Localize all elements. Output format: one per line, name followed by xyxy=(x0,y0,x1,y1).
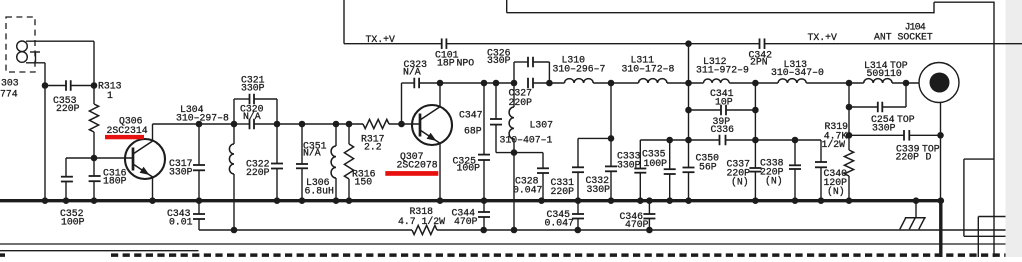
node C326/C327 right xyxy=(546,80,553,87)
annotation red underline 2SC2314 xyxy=(105,135,144,139)
node L304 bottom on lower rail xyxy=(231,227,238,234)
wire L304 top stub xyxy=(233,124,235,144)
node L307 top xyxy=(511,80,518,87)
svg-text:N/A: N/A xyxy=(403,67,421,78)
wire C331 top branch xyxy=(578,137,611,139)
annotation red underline 2SC2078 xyxy=(385,171,438,176)
svg-text:2.2: 2.2 xyxy=(364,142,382,153)
wire top border vertical into TX.+V rail xyxy=(343,0,345,44)
node L304 top xyxy=(231,121,238,128)
node Q307 base / C323 branch xyxy=(398,121,405,128)
wire C346 to lower rail xyxy=(648,219,650,231)
wire C320 right xyxy=(254,123,277,125)
svg-text:(N): (N) xyxy=(765,176,783,187)
wire L313 to antenna node xyxy=(806,82,863,84)
wire C352 to ground bus xyxy=(65,182,67,201)
wire lower rail left xyxy=(199,229,412,231)
wire C316 stub xyxy=(93,158,95,176)
svg-text:100P: 100P xyxy=(457,163,481,174)
svg-text:2PN: 2PN xyxy=(750,56,768,67)
wire C333 to bus xyxy=(639,173,641,201)
wire TX.+V rail left segment xyxy=(344,43,442,45)
node bus corner xyxy=(938,197,945,204)
wire right corner y216 xyxy=(978,216,1005,218)
inductor L312 xyxy=(704,79,730,83)
wire Q306 collector up xyxy=(152,124,154,141)
resistor R316 xyxy=(344,144,353,179)
wire C353 left xyxy=(45,85,66,87)
node C347 top xyxy=(493,80,500,87)
wire C326 branch verticals xyxy=(513,62,515,83)
svg-text:310–296–7: 310–296–7 xyxy=(553,63,606,74)
node C339 to antenna drop xyxy=(937,132,944,139)
wire C325 stub xyxy=(483,83,485,155)
node C338 top xyxy=(792,137,799,144)
node R313 bottom / base wire xyxy=(91,155,98,162)
inductor L304 xyxy=(229,144,234,174)
capacitor C342 xyxy=(759,38,761,49)
wire C254 branch right xyxy=(882,106,906,108)
svg-text:TOP: TOP xyxy=(897,114,915,125)
bus junction dots xyxy=(42,197,49,204)
wire x755 vertical xyxy=(754,83,756,168)
svg-text:TX.+V: TX.+V xyxy=(366,34,396,45)
wire C328 branch xyxy=(514,152,543,154)
svg-text:(N): (N) xyxy=(731,177,749,188)
svg-text:D: D xyxy=(926,151,932,162)
svg-text:220P: 220P xyxy=(896,151,920,162)
svg-text:303: 303 xyxy=(1,78,19,89)
wire C322 stub xyxy=(276,124,278,164)
wire main to C351 xyxy=(277,123,363,125)
svg-text:470P: 470P xyxy=(625,219,649,230)
wire L306 to bus xyxy=(335,178,337,201)
svg-text:10P: 10P xyxy=(715,96,733,107)
wire Q306 collector to L304 node xyxy=(153,123,235,125)
wire C339 branch right xyxy=(909,134,940,136)
wire rail tap vertical x688 xyxy=(688,44,690,168)
capacitor C347 xyxy=(490,118,502,120)
svg-text:C336: C336 xyxy=(711,124,735,135)
wire C321 branch right vertical xyxy=(276,99,278,124)
border line y250 xyxy=(0,250,199,252)
svg-text:(N): (N) xyxy=(827,186,845,197)
node L307 bottom xyxy=(511,149,518,156)
wire C338 to bus xyxy=(794,169,796,201)
node C335 top xyxy=(666,137,673,144)
node L312/L313 junction xyxy=(752,80,759,87)
ground bus corner vertical xyxy=(939,199,942,257)
capacitor C332 xyxy=(605,165,617,167)
wire L314 to socket xyxy=(892,82,919,84)
svg-text:100P: 100P xyxy=(61,217,85,228)
resistor R319 xyxy=(844,150,853,176)
node C332/C331 junction xyxy=(608,135,615,142)
node L307 on lower rail xyxy=(511,227,518,234)
capacitor C322 xyxy=(271,163,283,165)
transistor Q307 xyxy=(412,105,452,145)
wire roof step vertical xyxy=(933,2,935,13)
wire C254 branch left xyxy=(849,106,878,108)
wire L304 bottom crossing bus xyxy=(233,174,235,230)
node C325 top xyxy=(481,80,488,87)
wire 140-branch from C333 xyxy=(640,139,719,141)
wire L310 to L311 xyxy=(593,82,638,84)
svg-text:TX.+V: TX.+V xyxy=(808,32,838,43)
wire C323 branch vertical xyxy=(401,83,403,124)
svg-text:1: 1 xyxy=(107,90,113,101)
ground symbol xyxy=(915,201,917,218)
wire C325 to bus xyxy=(483,160,485,201)
node C351 top xyxy=(299,121,306,128)
wire C333 vertical xyxy=(639,140,641,169)
capacitor C336 xyxy=(719,135,721,146)
svg-text:0.047: 0.047 xyxy=(513,184,543,195)
wire R316 stub xyxy=(348,124,350,144)
capacitor C346 xyxy=(643,213,655,215)
node R316 top xyxy=(346,121,353,128)
wire C328 to bus xyxy=(542,173,544,201)
transistor Q306 xyxy=(125,139,165,179)
wire C332 to bus xyxy=(610,171,612,200)
node L303 bottom / C353 left xyxy=(42,82,49,89)
wire C323 left stub xyxy=(402,82,415,84)
wire C320 left xyxy=(234,123,250,125)
wire L307 bottom xyxy=(513,139,515,153)
svg-text:774: 774 xyxy=(0,89,18,100)
wire C350 to bus xyxy=(688,172,690,201)
wire C323 right to collector node xyxy=(419,82,514,84)
svg-text:N/A: N/A xyxy=(243,111,261,122)
capacitor C323 xyxy=(413,78,415,89)
wire right step y236 xyxy=(964,235,1006,237)
inductor L311 xyxy=(639,79,668,83)
svg-text:310–347–0: 310–347–0 xyxy=(771,67,824,78)
svg-text:330P: 330P xyxy=(487,55,511,66)
svg-text:150: 150 xyxy=(355,177,373,188)
node L314 right xyxy=(903,80,910,87)
wire 110-branch left xyxy=(689,109,722,111)
wire coil bottom down xyxy=(26,62,45,64)
svg-text:4.7 1/2W: 4.7 1/2W xyxy=(398,216,445,227)
node C322 top xyxy=(274,121,281,128)
svg-text:311–972–9: 311–972–9 xyxy=(696,65,749,76)
connector J104 outer xyxy=(919,63,959,103)
wire C343 stub xyxy=(198,201,200,214)
svg-text:220P: 220P xyxy=(509,97,533,108)
wire C326 branch top left xyxy=(514,61,528,63)
wire L307 bottom to lower rail crossing bus xyxy=(513,153,515,230)
wire L306 stub xyxy=(335,124,337,146)
svg-text:220P: 220P xyxy=(551,186,575,197)
capacitor C343 xyxy=(193,213,205,215)
wire C321 branch top left xyxy=(234,98,250,100)
wire C347 bottom to L307 node xyxy=(495,125,497,153)
resistor R317 xyxy=(363,119,389,128)
capacitor C344 xyxy=(478,211,490,213)
svg-text:C347: C347 xyxy=(459,110,483,121)
wire C326 branch top right xyxy=(533,61,549,63)
svg-text:18P: 18P xyxy=(437,58,455,69)
svg-text:330P: 330P xyxy=(872,123,896,134)
wire L307 stub xyxy=(513,83,515,107)
svg-text:100P: 100P xyxy=(644,158,668,169)
wire L312 to L313 xyxy=(729,82,778,84)
resistor R318 xyxy=(412,225,437,234)
wire C340 vertical xyxy=(820,140,822,162)
wire right step vertical xyxy=(963,159,965,236)
inductor L314 xyxy=(864,79,892,83)
wire C347 stub xyxy=(495,83,497,119)
wire C351 to bus xyxy=(301,168,303,200)
inductor L303 tap xyxy=(30,51,40,53)
svg-text:330P: 330P xyxy=(169,166,193,177)
wire TX.+V rail middle segment xyxy=(446,43,759,45)
inductor L307 xyxy=(509,107,514,139)
svg-text:330P: 330P xyxy=(241,83,265,94)
svg-text:220P: 220P xyxy=(246,167,270,178)
inductor L306 xyxy=(331,146,336,178)
capacitor C321 xyxy=(249,94,251,105)
wire roof border vertical xyxy=(506,0,508,13)
wire C338 vertical xyxy=(794,140,796,165)
wire C322 to bus xyxy=(276,169,278,201)
lower rail dots xyxy=(480,227,487,234)
wire C317 stub xyxy=(198,124,200,165)
wire C321 branch left vertical xyxy=(233,99,235,124)
node x755 on 140-branch xyxy=(752,137,759,144)
wire Q307 collector up xyxy=(439,83,441,107)
wire R319 to bus xyxy=(848,176,850,201)
svg-text:470P: 470P xyxy=(454,216,478,227)
node x755 on 110-branch xyxy=(752,107,759,114)
svg-text:220P: 220P xyxy=(56,103,80,114)
svg-text:NPO: NPO xyxy=(457,58,475,69)
capacitor C340 xyxy=(815,161,827,163)
grey page margin strip xyxy=(1006,0,1022,257)
node x688 on 110-branch xyxy=(685,107,692,114)
svg-text:0.01: 0.01 xyxy=(169,217,193,228)
svg-text:0.047: 0.047 xyxy=(545,217,575,228)
wire roof horizontal xyxy=(507,12,934,14)
svg-text:509110: 509110 xyxy=(867,68,902,79)
inductor L310 xyxy=(565,79,594,83)
capacitor C351 xyxy=(296,163,308,165)
capacitor C341 xyxy=(720,105,722,116)
node R319 top / L314 left xyxy=(846,80,853,87)
node main filter tap x688 xyxy=(685,80,692,87)
wire C340 to bus xyxy=(820,167,822,200)
wire R316 to bus xyxy=(348,179,350,201)
svg-text:310–407–1: 310–407–1 xyxy=(500,134,553,145)
svg-text:56P: 56P xyxy=(699,161,717,172)
svg-text:310–172–8: 310–172–8 xyxy=(622,63,675,74)
svg-text:330P: 330P xyxy=(617,159,641,170)
wire lower rail right xyxy=(437,229,1006,231)
labels group xyxy=(0,22,940,231)
capacitor C326 xyxy=(527,57,529,68)
wire Q306 base wire xyxy=(66,157,133,159)
wire C337 to bus xyxy=(754,172,756,201)
wire right step y159 xyxy=(964,158,994,160)
border line y244 xyxy=(0,243,1006,245)
resistor R313 xyxy=(89,104,98,132)
wire Q307 emitter to bus xyxy=(439,143,441,200)
capacitor C254 xyxy=(877,102,879,113)
wire C345 stub xyxy=(577,201,579,214)
shield box L303 (dashed) xyxy=(6,17,35,72)
node L306 top xyxy=(333,121,340,128)
wire C335 vertical xyxy=(669,140,671,169)
node C332 tap xyxy=(608,80,615,87)
capacitor C333 xyxy=(634,168,646,170)
svg-text:2SC2078: 2SC2078 xyxy=(397,159,438,170)
wire Q306 emitter to bus xyxy=(152,177,154,200)
node C254 branch xyxy=(846,104,853,111)
capacitor C327 xyxy=(527,78,529,89)
inductor L303 loops xyxy=(17,41,28,52)
wire C353 right xyxy=(71,85,94,87)
wire C316 to ground bus xyxy=(93,181,95,201)
ground bus xyxy=(0,199,941,202)
wire roof step horizontal xyxy=(934,1,994,3)
wire right border vertical xyxy=(993,2,995,258)
capacitor C316 xyxy=(89,175,101,177)
capacitor C320 xyxy=(249,119,251,130)
wire C321 branch top right xyxy=(254,98,277,100)
node Q307 collector xyxy=(437,80,444,87)
capacitor C101 xyxy=(441,38,443,49)
wire C317 to bus xyxy=(198,170,200,200)
wire C344 to lower rail xyxy=(483,217,485,230)
wire C345 to lower rail xyxy=(577,219,579,231)
capacitor C339 xyxy=(903,130,905,141)
capacitor C350 xyxy=(683,167,695,169)
svg-text:330P: 330P xyxy=(587,184,611,195)
node C353 right / R313 top xyxy=(91,82,98,89)
wire C331 to bus xyxy=(577,172,579,201)
node x688 on 140-branch xyxy=(685,137,692,144)
capacitor C337 xyxy=(749,167,761,169)
wire C344 stub xyxy=(483,201,485,212)
wire coil top to R313 top xyxy=(26,40,94,42)
svg-text:N/A: N/A xyxy=(303,148,321,159)
node C317 top xyxy=(196,121,203,128)
wire R319 vertical top xyxy=(848,83,850,150)
capacitor C317 xyxy=(193,164,205,166)
wire R313 stubs xyxy=(93,86,95,105)
wire R317 to Q307 base xyxy=(389,123,420,125)
svg-text:L307: L307 xyxy=(530,120,554,131)
svg-text:310–297–8: 310–297–8 xyxy=(176,113,229,124)
capacitor C335 xyxy=(664,168,676,170)
dashed section divider xyxy=(111,253,1006,257)
capacitor C353 xyxy=(65,80,67,91)
node C339 branch xyxy=(846,132,853,139)
capacitor C338 xyxy=(789,164,801,166)
svg-text:180P: 180P xyxy=(103,176,127,187)
inductor L313 xyxy=(778,79,806,83)
svg-text:1/2W: 1/2W xyxy=(822,139,846,150)
wire C346 stub xyxy=(648,201,650,214)
wire C352 stub xyxy=(65,158,67,177)
svg-text:2SC2314: 2SC2314 xyxy=(107,125,148,136)
wire C327 right xyxy=(533,82,565,84)
capacitor C331 xyxy=(572,166,584,168)
wire C335 to bus xyxy=(669,174,671,201)
wire 110-branch right xyxy=(726,109,755,111)
wire C339 branch left xyxy=(849,134,904,136)
wire right corner vertical xyxy=(977,217,979,258)
wire TX.+V rail right segment to antenna area xyxy=(765,43,1022,45)
node rail to filter tap xyxy=(685,40,692,47)
svg-text:6.8uH: 6.8uH xyxy=(305,186,335,197)
wire C351 stub xyxy=(301,124,303,164)
capacitor C352 xyxy=(61,176,73,178)
svg-text:68P: 68P xyxy=(464,125,482,136)
capacitor C325 xyxy=(478,154,490,156)
capacitor C328 xyxy=(537,167,549,169)
wire socket down xyxy=(940,102,942,200)
capacitor C345 xyxy=(572,213,584,215)
wire 140-branch right of C336 xyxy=(726,139,822,141)
wire L311 to L312 xyxy=(667,82,704,84)
svg-text:ANT SOCKET: ANT SOCKET xyxy=(874,31,933,42)
wire C332 vertical xyxy=(610,83,612,166)
connector J104 center pin xyxy=(930,73,950,93)
wire C343 to lower rail xyxy=(198,219,200,230)
